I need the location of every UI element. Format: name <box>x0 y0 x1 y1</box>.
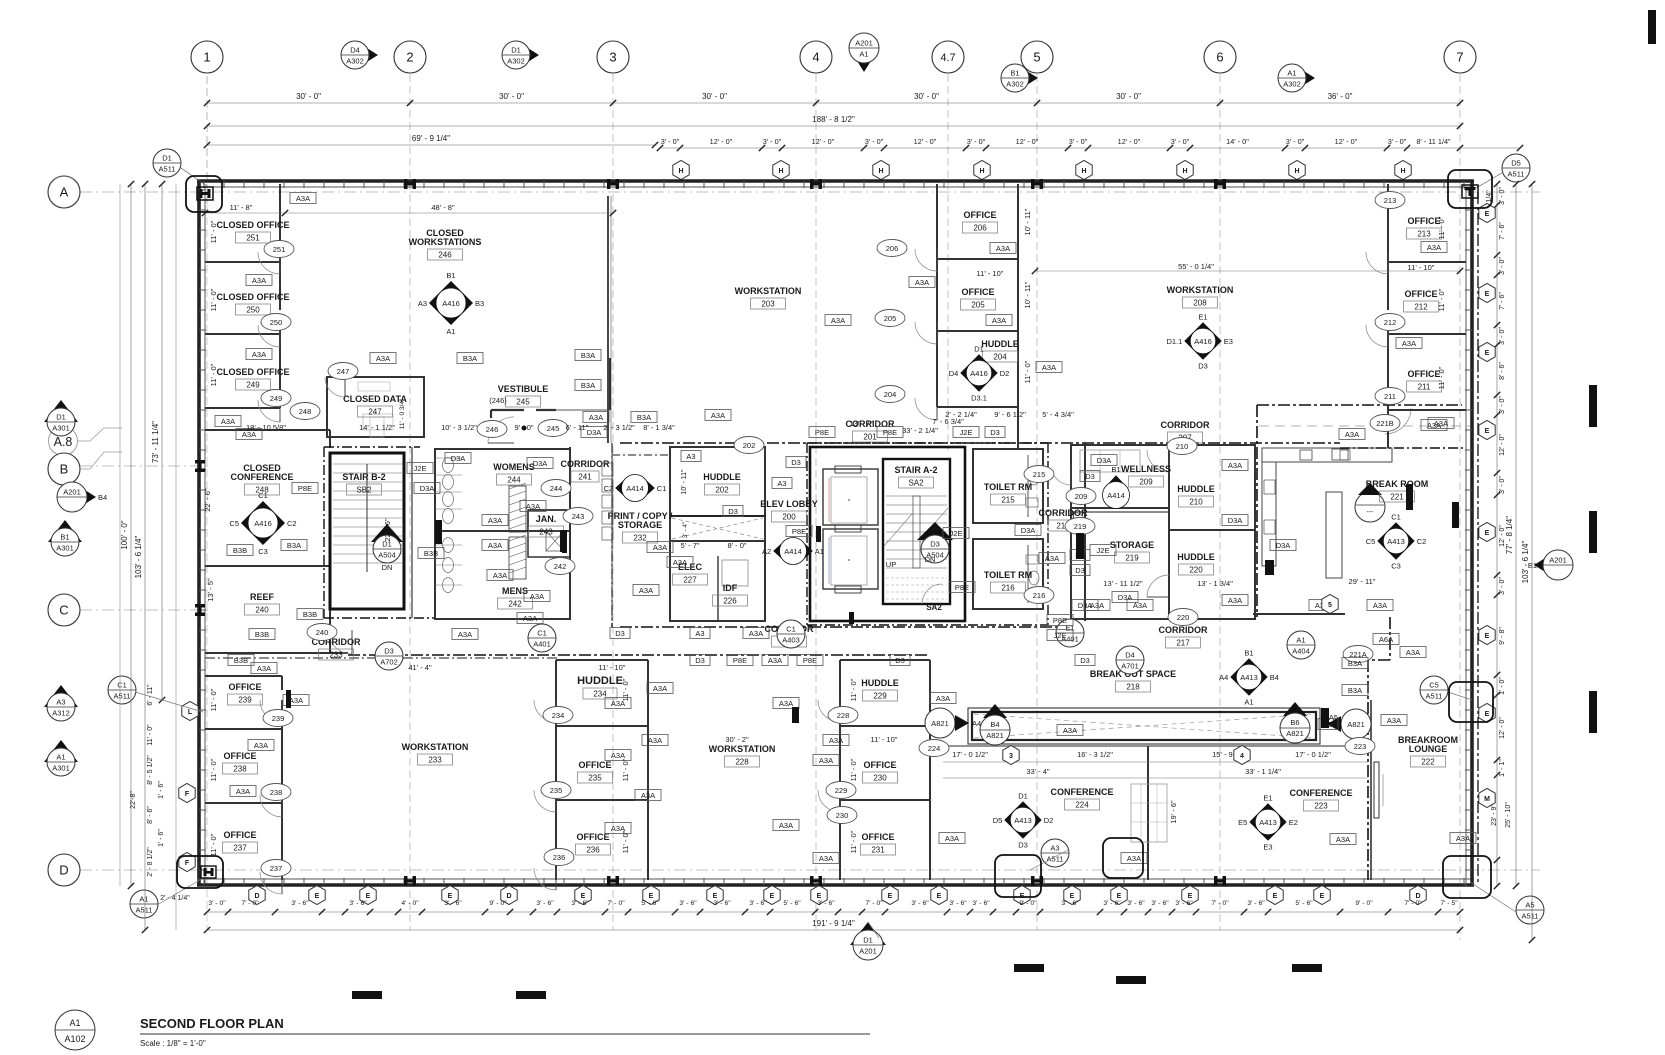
keynote tag D3 <box>1070 565 1090 576</box>
svg-text:13' - 11 1/2": 13' - 11 1/2" <box>1103 579 1143 588</box>
match line tick <box>1116 976 1146 984</box>
hex tag 4 <box>1234 746 1250 765</box>
bench / planter long element <box>968 708 1320 744</box>
svg-text:235: 235 <box>588 774 602 783</box>
svg-text:11' - 10": 11' - 10" <box>977 269 1004 278</box>
svg-text:WORKSTATIONS: WORKSTATIONS <box>409 237 482 247</box>
svg-text:3' - 0": 3' - 0" <box>661 137 680 146</box>
keynote tag D3A <box>581 427 607 438</box>
door tag 236 <box>544 849 574 866</box>
keynote tag D3A <box>1270 540 1296 551</box>
svg-text:A3A: A3A <box>819 756 833 765</box>
door tag 240 <box>307 624 337 641</box>
room label: HUDDLE 229 <box>861 678 899 701</box>
svg-text:OFFICE: OFFICE <box>962 287 995 297</box>
svg-text:220: 220 <box>1177 613 1190 622</box>
svg-text:11' - 0": 11' - 0" <box>209 288 218 311</box>
keynote tag A3A <box>642 735 668 746</box>
section marker D1/A302 <box>502 41 539 69</box>
hex tag D <box>249 886 265 905</box>
svg-text:7' - 6": 7' - 6" <box>1499 292 1506 310</box>
svg-text:E: E <box>1188 893 1193 900</box>
hex tag D <box>1410 886 1426 905</box>
detail callout box <box>1103 838 1143 878</box>
door tag 211 <box>1375 388 1405 405</box>
svg-text:1: 1 <box>203 50 210 65</box>
svg-text:D5: D5 <box>1511 159 1521 168</box>
keynote tag A3A <box>909 277 935 288</box>
match line tick <box>1589 511 1597 553</box>
svg-text:11' - 0": 11' - 0" <box>1437 366 1446 389</box>
room label: WORKSTATION 203 <box>735 286 802 309</box>
keynote tag B3A <box>457 353 483 364</box>
match line tick <box>286 690 291 708</box>
svg-text:218: 218 <box>1126 683 1140 692</box>
keynote tag A3A <box>939 833 965 844</box>
plumbing wall hatch womens <box>509 483 526 532</box>
svg-text:B3A: B3A <box>1348 659 1362 668</box>
svg-text:WOMENS: WOMENS <box>493 462 535 472</box>
svg-text:242: 242 <box>508 600 522 609</box>
svg-text:A3A: A3A <box>493 571 507 580</box>
svg-text:H: H <box>1294 168 1299 175</box>
svg-text:E: E <box>1273 893 1278 900</box>
svg-text:A1: A1 <box>1244 698 1253 707</box>
svg-text:4' - 0": 4' - 0" <box>401 900 419 907</box>
door tag 216 <box>1024 587 1054 604</box>
svg-text:CORRIDOR: CORRIDOR <box>1161 420 1210 430</box>
keynote tag A3A <box>813 755 839 766</box>
section marker A201/A1 <box>849 33 879 72</box>
corridor 233 south wall <box>205 657 560 659</box>
svg-text:E: E <box>817 893 822 900</box>
corner column symbol TL <box>197 187 213 200</box>
keynote tag A3A <box>283 695 309 706</box>
svg-text:12' - 0": 12' - 0" <box>710 137 733 146</box>
svg-text:6' - 11": 6' - 11" <box>147 684 154 706</box>
svg-text:B1: B1 <box>60 533 69 542</box>
svg-text:H: H <box>1081 168 1086 175</box>
svg-text:E1: E1 <box>1198 312 1207 321</box>
svg-text:D4: D4 <box>1125 651 1135 660</box>
svg-text:A3A: A3A <box>1456 834 1470 843</box>
keynote tag A3A <box>236 429 262 440</box>
svg-text:CLOSED DATA: CLOSED DATA <box>343 394 407 404</box>
door swing <box>325 377 345 397</box>
hex tag E <box>1479 421 1495 440</box>
svg-text:3' - 6": 3' - 6" <box>571 900 589 907</box>
svg-text:A3A: A3A <box>252 276 266 285</box>
vertical dimension chain <box>151 181 165 703</box>
room label: OFFICE 211 <box>1407 369 1442 392</box>
svg-text:A3A: A3A <box>1406 648 1420 657</box>
svg-text:E1: E1 <box>1263 793 1272 802</box>
room label: CLOSED OFFICE 251 <box>216 220 289 243</box>
door tag 221B <box>1370 415 1400 432</box>
svg-text:B4: B4 <box>1270 673 1279 682</box>
dim 11'-8 top left <box>205 212 613 214</box>
svg-text:7' - 0": 7' - 0" <box>1211 900 1229 907</box>
svg-text:J2E: J2E <box>950 529 963 538</box>
print/copy room walls <box>612 443 670 621</box>
svg-text:A3A: A3A <box>749 629 763 638</box>
svg-text:8' - 1 3/4": 8' - 1 3/4" <box>643 423 675 432</box>
svg-text:11' - 0 3/4": 11' - 0 3/4" <box>399 398 406 429</box>
svg-text:D2: D2 <box>1044 816 1054 825</box>
stair direction marker D1/A504 <box>371 524 403 572</box>
room label: CORRIDOR 207 <box>1161 420 1210 443</box>
svg-text:D3A: D3A <box>420 484 435 493</box>
door tag 244 <box>541 480 571 497</box>
grid bubble 1 <box>191 41 223 73</box>
svg-text:B3B: B3B <box>424 549 438 558</box>
keynote tag A3A <box>452 629 478 640</box>
svg-text:E: E <box>1485 711 1490 718</box>
svg-text:243: 243 <box>539 528 553 537</box>
door tag 230 <box>827 807 857 824</box>
door tag 247 <box>328 363 358 380</box>
keynote tag A3A <box>1084 600 1110 611</box>
dimension chain <box>657 137 1523 151</box>
svg-text:1' - 6": 1' - 6" <box>158 781 165 799</box>
match line tick <box>1076 533 1084 559</box>
svg-text:A1: A1 <box>139 895 148 904</box>
svg-text:232: 232 <box>633 534 647 543</box>
svg-text:B3A: B3A <box>637 413 651 422</box>
grid line 4 vertical <box>815 74 817 930</box>
room label: CORRIDOR 217 <box>1159 625 1208 648</box>
svg-text:B3B: B3B <box>255 630 269 639</box>
exterior wall top <box>197 181 1474 188</box>
svg-text:A3A: A3A <box>488 516 502 525</box>
svg-text:3' - 0": 3' - 0" <box>763 137 782 146</box>
hex tag D <box>501 886 517 905</box>
door tag 245 <box>538 420 568 437</box>
room label: OFFICE 212 <box>1404 289 1439 312</box>
hex tag H <box>974 161 990 180</box>
svg-text:3' - 0": 3' - 0" <box>1499 577 1506 595</box>
svg-text:P8E: P8E <box>955 583 969 592</box>
svg-text:E: E <box>713 893 718 900</box>
svg-text:D1: D1 <box>1018 791 1028 800</box>
keynote tag A3A <box>667 557 693 568</box>
svg-text:E: E <box>1070 893 1075 900</box>
keynote tag B3A <box>575 380 601 391</box>
door swing <box>915 398 937 420</box>
svg-text:D3: D3 <box>990 428 1000 437</box>
lounge glazing wall <box>1374 762 1383 818</box>
svg-text:B: B <box>60 462 69 477</box>
svg-text:222: 222 <box>1421 758 1435 767</box>
svg-text:C3: C3 <box>1391 562 1401 571</box>
hex tag E <box>1479 704 1495 723</box>
svg-text:25' - 10": 25' - 10" <box>1505 802 1512 828</box>
svg-text:A511: A511 <box>1047 855 1064 864</box>
room label: CLOSED DATA 247 <box>343 394 407 417</box>
center-south offices column 234/235/236 <box>556 660 648 880</box>
svg-text:233: 233 <box>428 756 442 765</box>
match line tick <box>1265 560 1274 575</box>
column marks on exterior walls <box>195 179 1226 886</box>
section marker A3/A312 <box>44 685 78 721</box>
keynote tag A3A <box>1400 647 1426 658</box>
idf equipment rack <box>722 560 748 586</box>
door tag 204 <box>875 386 905 403</box>
door tag 206 <box>877 240 907 257</box>
svg-text:3' - 0": 3' - 0" <box>1499 187 1506 205</box>
door swing <box>1366 252 1388 274</box>
keynote tag A3A <box>583 412 609 423</box>
svg-text:103' - 6 1/4": 103' - 6 1/4" <box>134 536 143 579</box>
svg-text:D3A: D3A <box>1097 456 1112 465</box>
svg-text:A504: A504 <box>378 551 396 560</box>
svg-text:A3A: A3A <box>257 664 271 673</box>
svg-text:D1: D1 <box>162 154 172 163</box>
keynote tag A3A <box>813 853 839 864</box>
svg-text:3' - 0": 3' - 0" <box>1499 396 1506 414</box>
door tag 235 <box>541 782 571 799</box>
toilet rooms 215/216 walls <box>973 449 1043 609</box>
svg-text:A413: A413 <box>1387 537 1405 546</box>
north center offices 206/205/204 <box>937 184 1018 448</box>
keynote tag J2E <box>943 528 969 539</box>
svg-text:A404: A404 <box>1292 647 1310 656</box>
svg-text:7' - 6": 7' - 6" <box>1499 222 1506 240</box>
svg-text:A3A: A3A <box>829 736 843 745</box>
svg-text:A821: A821 <box>931 719 949 728</box>
svg-text:A511: A511 <box>159 165 176 174</box>
svg-text:3' - 6": 3' - 6" <box>1127 900 1145 907</box>
svg-text:215: 215 <box>1001 496 1015 505</box>
hex tag E <box>1182 886 1198 905</box>
door swing <box>534 700 556 722</box>
closed workstations 246 east wall <box>608 196 611 443</box>
wellness couch <box>1080 450 1140 472</box>
svg-text:191' - 9 1/4": 191' - 9 1/4" <box>812 919 855 928</box>
svg-text:3' - 0": 3' - 0" <box>1069 137 1088 146</box>
svg-text:P8E: P8E <box>1053 616 1067 625</box>
svg-text:4.7: 4.7 <box>940 52 955 64</box>
svg-text:11' - 0": 11' - 0" <box>1437 288 1446 311</box>
svg-text:3' - 0": 3' - 0" <box>1499 476 1506 494</box>
room label: OFFICE 231 <box>861 832 896 855</box>
svg-text:D3: D3 <box>615 629 625 638</box>
svg-text:11' - 0": 11' - 0" <box>1023 360 1032 383</box>
hex tag E <box>309 886 325 905</box>
svg-text:A3A: A3A <box>1434 419 1448 428</box>
svg-text:A1: A1 <box>446 327 455 336</box>
svg-text:73' - 11 1/4": 73' - 11 1/4" <box>151 421 160 463</box>
break room boundary <box>1253 405 1462 617</box>
grid bubble C <box>48 594 80 626</box>
svg-text:D1: D1 <box>863 936 873 945</box>
svg-text:E3: E3 <box>1263 843 1272 852</box>
vestibule entry walls <box>491 358 610 418</box>
door swing <box>260 700 282 722</box>
door swing <box>488 417 514 443</box>
keynote tag A3A <box>290 193 316 204</box>
svg-text:E: E <box>1485 633 1490 640</box>
svg-text:B3A: B3A <box>1348 686 1362 695</box>
svg-text:A3A: A3A <box>1042 363 1056 372</box>
keynote tag A3A <box>251 663 277 674</box>
svg-text:10' - 11": 10' - 11" <box>1023 208 1032 235</box>
svg-text:A414: A414 <box>1107 491 1125 500</box>
svg-text:---: --- <box>1367 509 1375 516</box>
room label: BREAK OUT SPACE 218 <box>1090 669 1176 692</box>
section marker D4/A302 <box>341 41 378 69</box>
svg-text:11' - 0": 11' - 0" <box>209 833 218 856</box>
svg-text:3' - 6": 3' - 6" <box>749 900 767 907</box>
grid bubble A <box>48 176 80 208</box>
svg-text:B1: B1 <box>1111 465 1120 474</box>
grid line 2 vertical <box>409 74 411 930</box>
keynote tag B3B <box>418 548 444 559</box>
detail callout box <box>1443 856 1491 898</box>
svg-text:A3A: A3A <box>1387 716 1401 725</box>
svg-text:3' - 0": 3' - 0" <box>1499 257 1506 275</box>
svg-text:P8E: P8E <box>815 428 829 437</box>
svg-text:A: A <box>60 185 69 200</box>
dimension chain <box>204 134 658 148</box>
grid line D horizontal <box>80 869 1540 871</box>
svg-text:11' - 8": 11' - 8" <box>230 203 253 212</box>
svg-text:30' - 2": 30' - 2" <box>725 735 749 744</box>
svg-text:A.8: A.8 <box>54 435 73 449</box>
svg-text:LOUNGE: LOUNGE <box>1409 744 1448 754</box>
svg-text:D3A: D3A <box>1228 516 1243 525</box>
svg-text:14' - 0": 14' - 0" <box>1226 137 1249 146</box>
svg-text:A3A: A3A <box>1228 461 1242 470</box>
svg-text:5' - 6": 5' - 6" <box>783 900 801 907</box>
svg-text:5: 5 <box>1328 602 1332 609</box>
svg-text:A3A: A3A <box>458 630 472 639</box>
svg-text:1' - 0": 1' - 0" <box>1499 677 1506 695</box>
exterior wall bottom <box>197 878 1474 885</box>
hex tag E <box>1479 343 1495 362</box>
svg-text:HUDDLE: HUDDLE <box>577 675 623 687</box>
svg-text:H: H <box>878 168 883 175</box>
elev marker A414 <box>604 475 667 502</box>
grid bubble 2 <box>394 41 426 73</box>
keynote tag B3B <box>227 545 253 556</box>
svg-text:A1: A1 <box>1287 69 1296 78</box>
svg-text:13' - 5": 13' - 5" <box>206 578 215 602</box>
svg-text:A201: A201 <box>859 947 877 956</box>
svg-text:13' - 7": 13' - 7" <box>849 419 873 428</box>
callout A821/A5 <box>1327 709 1371 739</box>
svg-text:J2E: J2E <box>414 464 427 473</box>
svg-text:219: 219 <box>1074 522 1087 531</box>
svg-text:213: 213 <box>1417 230 1431 239</box>
svg-text:A3: A3 <box>418 299 427 308</box>
hex tag F <box>179 853 195 872</box>
hex tag E <box>764 886 780 905</box>
keynote tag B3B <box>297 609 323 620</box>
door tag 219 <box>1065 518 1095 535</box>
section marker D1/A301 <box>44 400 78 436</box>
keynote tag D3A <box>1015 525 1041 536</box>
callout D1/A504 <box>373 535 401 563</box>
svg-text:240: 240 <box>255 606 269 615</box>
door swing <box>1147 450 1169 472</box>
svg-text:205: 205 <box>884 314 897 323</box>
svg-text:E2: E2 <box>1289 818 1298 827</box>
section marker B1/A301 <box>48 520 82 556</box>
svg-text:CORRIDOR: CORRIDOR <box>1159 625 1208 635</box>
svg-text:A301: A301 <box>56 544 74 553</box>
svg-text:A821: A821 <box>1286 729 1304 738</box>
svg-text:B3B: B3B <box>233 546 247 555</box>
svg-text:3' - 6": 3' - 6" <box>1061 900 1079 907</box>
svg-text:OFFICE: OFFICE <box>1405 289 1438 299</box>
grid B leader <box>79 452 122 469</box>
svg-text:STAIR B-2: STAIR B-2 <box>342 472 385 482</box>
keynote tag A3A <box>1330 834 1356 845</box>
keynote tag D3 <box>1080 471 1100 482</box>
keynote tag A3A <box>1381 715 1407 726</box>
svg-text:OFFICE: OFFICE <box>224 751 257 761</box>
door swing <box>534 868 556 890</box>
svg-text:HUDDLE: HUDDLE <box>703 472 741 482</box>
svg-text:212: 212 <box>1384 318 1397 327</box>
svg-text:A3: A3 <box>695 629 704 638</box>
keynote tag A3A <box>1121 853 1147 864</box>
conference dim row <box>943 761 1368 763</box>
svg-text:A3A: A3A <box>1427 243 1441 252</box>
svg-text:237: 237 <box>270 864 283 873</box>
keynote tag D3A <box>1072 600 1098 611</box>
callout D4/A701 <box>1116 646 1144 674</box>
svg-text:33' - 1 1/4": 33' - 1 1/4" <box>1245 767 1281 776</box>
svg-text:D1: D1 <box>511 46 521 55</box>
svg-text:103' - 6 1/4": 103' - 6 1/4" <box>1521 541 1530 584</box>
svg-text:3' - 0": 3' - 0" <box>1171 137 1190 146</box>
keynote tag D3 <box>985 427 1005 438</box>
door swing <box>915 249 937 271</box>
keynote tag D3A <box>1112 592 1138 603</box>
svg-text:9' - 0": 9' - 0" <box>489 900 507 907</box>
hex tag E <box>442 886 458 905</box>
grid bubble 5 <box>1021 41 1053 73</box>
keynote tag B3B <box>228 655 254 666</box>
svg-text:C: C <box>59 603 68 618</box>
room label: ELEC 227 <box>673 562 708 585</box>
svg-text:242: 242 <box>554 562 567 571</box>
room label: None 222 <box>1398 735 1458 767</box>
keynote tag A3A <box>246 349 272 360</box>
grid line 5 vertical <box>1036 74 1038 930</box>
svg-text:9' - 0": 9' - 0" <box>514 423 533 432</box>
toilet stall partitions mens <box>435 545 462 585</box>
svg-text:A701: A701 <box>1121 662 1139 671</box>
svg-text:D3: D3 <box>384 647 394 656</box>
grid line 4.7 vertical <box>947 74 949 450</box>
keynote tag D3A <box>445 453 471 464</box>
svg-text:B3A: B3A <box>581 351 595 360</box>
svg-text:8' - 5 1/2": 8' - 5 1/2" <box>147 755 154 785</box>
grid line 7 vertical <box>1459 74 1461 940</box>
callout C1/A511 <box>108 676 136 704</box>
dimension chain <box>204 909 1463 915</box>
svg-text:230: 230 <box>873 774 887 783</box>
callout A3/A511 <box>1041 839 1069 867</box>
svg-text:D: D <box>254 893 259 900</box>
room label: OFFICE 206 <box>963 210 998 233</box>
svg-text:J2E: J2E <box>1054 631 1067 640</box>
svg-text:OFFICE: OFFICE <box>862 832 895 842</box>
svg-text:A3A: A3A <box>1090 601 1104 610</box>
